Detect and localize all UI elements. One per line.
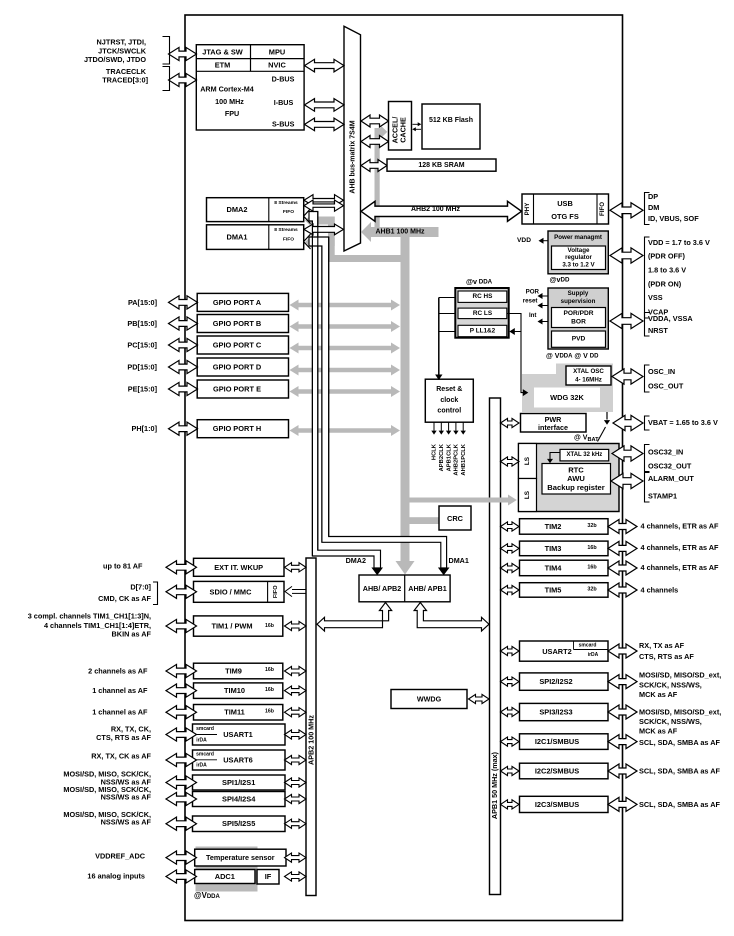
svg-text:PD[15:0]: PD[15:0]: [127, 363, 157, 372]
gray DMA2 stub: [311, 217, 335, 225]
svg-text:SCL, SDA, SMBA as AF: SCL, SDA, SMBA as AF: [639, 800, 720, 809]
Supply supervision block: [548, 288, 608, 349]
svg-text:ETM: ETM: [215, 61, 231, 70]
gray AHB1 trunk arrowhead into bridge: [396, 561, 415, 575]
gray accelerator arrowhead: [375, 125, 388, 138]
APB2 bus bar: [306, 558, 316, 896]
CPU S-BUS to matrix arrow: [305, 118, 345, 131]
RC LS to PLL wire: [507, 314, 521, 332]
svg-text:smcard: smcard: [196, 726, 214, 732]
gray AHB1 vertical trunk: [401, 231, 410, 561]
svg-text:16b: 16b: [265, 708, 274, 714]
VDD pins arrow: [610, 248, 643, 263]
svg-text:STAMP1: STAMP1: [648, 492, 677, 501]
svg-text:Supply: Supply: [568, 290, 589, 297]
APB2 connector arrow: [285, 730, 307, 739]
svg-text:128 KB SRAM: 128 KB SRAM: [418, 162, 464, 169]
TIM pins arrow: [608, 520, 637, 534]
DMA1 to matrix arrow: [304, 224, 344, 235]
SPI5/I2S5 block: [193, 816, 286, 832]
TIM11 block: [194, 705, 283, 721]
svg-text:TIM4: TIM4: [545, 563, 563, 572]
peripheral AF pins arrow: [608, 675, 637, 689]
svg-text:8 Streams: 8 Streams: [274, 227, 298, 233]
512 KB Flash block: [422, 104, 480, 149]
svg-text:PH[1:0]: PH[1:0]: [131, 424, 157, 433]
svg-text:irDA: irDA: [196, 737, 207, 743]
peripheral pins arrow: [166, 870, 197, 883]
CRC block: [439, 506, 471, 530]
svg-text:USB: USB: [557, 199, 573, 208]
DMA channel vertical wires: [311, 221, 313, 556]
svg-text:D-BUS: D-BUS: [272, 74, 295, 83]
svg-text:SPI3/I2S3: SPI3/I2S3: [539, 708, 572, 717]
peripheral AF pins arrow: [608, 644, 637, 658]
WWDG block: [391, 690, 467, 709]
APB2 connector arrow: [285, 853, 307, 862]
USB bracket: [645, 193, 650, 225]
svg-text:LS: LS: [524, 456, 531, 465]
peripheral AF pins arrow: [608, 764, 637, 778]
svg-text:DMA2: DMA2: [346, 556, 366, 565]
USB OTG FS block: [522, 194, 609, 224]
svg-text:Power managmt: Power managmt: [554, 234, 602, 241]
svg-text:DM: DM: [648, 203, 659, 212]
VDDA NRST pins arrow: [610, 313, 643, 328]
GPIO PORT H block: [197, 420, 288, 438]
RC oscillator group block: [455, 288, 508, 338]
APB1 connector arrow: [501, 522, 520, 531]
svg-text:Voltage: Voltage: [568, 247, 590, 254]
peripheral pins arrow: [166, 792, 197, 805]
svg-text:Reset &: Reset &: [436, 386, 462, 393]
gray link to trunk: [328, 255, 401, 262]
svg-text:APB1CLK: APB1CLK: [446, 443, 452, 471]
svg-text:VDDREF_ADC: VDDREF_ADC: [95, 851, 146, 860]
svg-text:OSC32_IN: OSC32_IN: [648, 448, 683, 457]
TIM pins arrow: [608, 561, 637, 575]
svg-text:AHB bus-matrix 7S4M: AHB bus-matrix 7S4M: [349, 120, 356, 193]
svg-text:USART2: USART2: [542, 647, 572, 656]
svg-text:MOSI/SD, MISO/SD_ext,: MOSI/SD, MISO/SD_ext,: [639, 708, 721, 717]
128 KB SRAM block: [387, 159, 496, 171]
svg-text:1.8 to 3.6 V: 1.8 to 3.6 V: [648, 266, 686, 275]
SDIO bracket: [153, 582, 158, 605]
svg-text:GPIO PORT C: GPIO PORT C: [213, 341, 262, 350]
APB2 connector arrow: [285, 819, 307, 828]
svg-text:PHY: PHY: [524, 202, 531, 216]
svg-text:JTDO/SWD, JTDO: JTDO/SWD, JTDO: [84, 55, 146, 64]
svg-text:TIM10: TIM10: [224, 686, 245, 695]
matrix to SRAM arrow: [361, 160, 387, 172]
svg-text:RX, TX as AF: RX, TX as AF: [639, 641, 685, 650]
svg-text:AHB2PCLK: AHB2PCLK: [454, 443, 460, 475]
svg-text:supervision: supervision: [561, 298, 596, 305]
svg-text:SCL, SDA, SMBA as AF: SCL, SDA, SMBA as AF: [639, 767, 720, 776]
I2C3/SMBUS block: [520, 796, 609, 812]
svg-text:FPU: FPU: [225, 109, 239, 118]
VDD bracket: [645, 237, 650, 318]
svg-text:JTAG & SW: JTAG & SW: [202, 47, 243, 56]
svg-text:PA[15:0]: PA[15:0]: [128, 298, 158, 307]
svg-text:AHB2 100 MHz: AHB2 100 MHz: [411, 206, 461, 213]
SPI3/I2S3 block: [520, 703, 609, 720]
svg-text:16b: 16b: [587, 545, 597, 551]
bridge to APB1 connector arrow: [414, 603, 489, 632]
gray GPIO port D bus arrow: [290, 365, 401, 376]
svg-text:32b: 32b: [587, 586, 597, 592]
peripheral pins arrow: [166, 817, 197, 830]
svg-text:16b: 16b: [587, 564, 597, 570]
svg-text:DP: DP: [648, 192, 658, 201]
svg-text:16b: 16b: [265, 687, 274, 693]
DMA2 APB2 channel: [309, 212, 381, 569]
APB1 connector arrow: [501, 646, 520, 655]
svg-text:DMA1: DMA1: [449, 556, 469, 565]
AHB2 100 MHz arrow: [361, 201, 522, 221]
svg-text:ALARM_OUT: ALARM_OUT: [648, 474, 694, 483]
svg-text:@ VBAT: @ VBAT: [574, 435, 599, 444]
APB1 connector arrow: [501, 418, 520, 427]
ACCEL/CACHE block: [389, 102, 412, 151]
SPI4/I2S4 block: [193, 792, 286, 807]
svg-text:PC[15:0]: PC[15:0]: [127, 341, 157, 350]
peripheral pins arrow: [166, 776, 197, 789]
CPU NVIC to matrix arrow: [305, 59, 345, 72]
XTAL32 to RTC wire: [550, 453, 560, 460]
APB2 connector arrow: [285, 794, 307, 803]
gray CRC stub: [410, 517, 440, 524]
JTAG bracket: [163, 37, 170, 65]
DMA2 block: [207, 198, 304, 222]
LS cell 1: [519, 444, 537, 479]
APB1 connector arrow: [501, 457, 520, 466]
OSC32 pins arrow: [612, 446, 643, 461]
APB2 connector arrow: [285, 686, 307, 695]
svg-text:CTS, RTS as AF: CTS, RTS as AF: [639, 652, 694, 661]
peripheral pins arrow: [166, 706, 197, 719]
WWDG connector arrow: [469, 694, 490, 703]
TIM9 block: [194, 663, 283, 679]
svg-text:GPIO PORT D: GPIO PORT D: [213, 363, 262, 372]
gray DMA vertical link: [328, 217, 335, 263]
APB2 connector arrow: [285, 778, 307, 787]
svg-text:16 analog inputs: 16 analog inputs: [87, 871, 145, 880]
svg-text:4 channels, ETR as AF: 4 channels, ETR as AF: [641, 563, 720, 572]
svg-text:RC LS: RC LS: [473, 310, 493, 317]
svg-text:VDD = 1.7 to 3.6 V: VDD = 1.7 to 3.6 V: [648, 238, 710, 247]
OSC bracket: [645, 365, 650, 392]
svg-text:SCL, SDA, SMBA as AF: SCL, SDA, SMBA as AF: [639, 738, 720, 747]
svg-text:ADC1: ADC1: [215, 872, 235, 881]
svg-text:SPI4/I2S4: SPI4/I2S4: [222, 795, 256, 804]
svg-text:TIM11: TIM11: [224, 708, 245, 717]
svg-text:NSS/WS as AF: NSS/WS as AF: [101, 792, 152, 801]
svg-text:@ VDDA @ V DD: @ VDDA @ V DD: [546, 353, 599, 360]
svg-text:I2C3/SMBUS: I2C3/SMBUS: [535, 800, 579, 809]
peripheral AF pins arrow: [608, 797, 637, 811]
USART1 block: [193, 724, 286, 745]
svg-text:(PDR ON): (PDR ON): [648, 279, 682, 288]
OSC32 bracket: [645, 445, 650, 472]
svg-text:DMA1: DMA1: [227, 233, 248, 242]
APB2 connector arrow: [285, 708, 307, 717]
svg-text:PE[15:0]: PE[15:0]: [128, 385, 158, 394]
svg-text:I2C1/SMBUS: I2C1/SMBUS: [535, 737, 579, 746]
svg-text:MCK as AF: MCK as AF: [639, 726, 678, 735]
VDDA bracket: [645, 313, 650, 337]
svg-text:USART6: USART6: [223, 756, 253, 765]
gray WDG region: [522, 374, 613, 412]
Temperature sensor block: [195, 849, 286, 866]
svg-text:16b: 16b: [265, 623, 274, 629]
PWR interface block: [521, 414, 587, 433]
AHB/APB bridge block: [359, 575, 450, 602]
svg-text:SPI2/I2S2: SPI2/I2S2: [539, 677, 572, 686]
svg-text:BOR: BOR: [571, 319, 586, 326]
svg-text:control: control: [437, 408, 461, 415]
svg-text:TIM5: TIM5: [545, 585, 562, 594]
peripheral pins arrow: [166, 619, 197, 632]
GPIO pins arrow: [169, 360, 198, 373]
gray GPIO port E bus arrow: [290, 386, 401, 397]
GPIO PORT E block: [197, 380, 288, 398]
peripheral pins arrow: [166, 728, 197, 741]
peripheral pins arrow: [166, 684, 197, 697]
svg-text:POR: POR: [526, 288, 540, 295]
WDG 32K box: [534, 388, 600, 408]
gray GPIO port A bus arrow: [290, 300, 401, 311]
svg-text:MOSI/SD, MISO/SD_ext,: MOSI/SD, MISO/SD_ext,: [639, 671, 721, 680]
TRACE signals arrow: [169, 73, 197, 86]
svg-text:ID, VBUS, SOF: ID, VBUS, SOF: [648, 214, 699, 223]
svg-text:FIFO: FIFO: [283, 236, 294, 242]
svg-text:clock: clock: [440, 397, 458, 404]
APB1 connector arrow: [501, 707, 520, 716]
svg-text:smcard: smcard: [196, 751, 214, 757]
XTAL OSC block: [566, 366, 611, 385]
svg-text:regulator: regulator: [565, 254, 592, 261]
Voltage regulator box: [552, 246, 606, 270]
GPIO PORT C block: [197, 336, 288, 354]
svg-text:VDDA, VSSA: VDDA, VSSA: [648, 314, 693, 323]
svg-text:4 channels: 4 channels: [641, 586, 679, 595]
svg-text:1 channel as AF: 1 channel as AF: [92, 708, 148, 717]
svg-text:NVIC: NVIC: [268, 61, 286, 70]
TIM5 block: [520, 583, 609, 598]
svg-text:TIM1 / PWM: TIM1 / PWM: [211, 622, 252, 631]
svg-text:D[7:0]: D[7:0]: [130, 582, 151, 591]
svg-text:Int: Int: [529, 312, 537, 319]
svg-text:I-BUS: I-BUS: [274, 98, 294, 107]
TIM pins arrow: [608, 583, 637, 597]
svg-text:irDA: irDA: [588, 652, 599, 658]
APB2 connector arrow: [285, 755, 307, 764]
ALARM STAMP pins arrow: [611, 473, 643, 488]
ADC IF block: [257, 870, 279, 885]
svg-text:100 MHz: 100 MHz: [215, 97, 244, 106]
svg-text:3.3 to 1.2 V: 3.3 to 1.2 V: [562, 261, 595, 268]
gray DMA1 stub: [311, 238, 335, 246]
TIM10 block: [194, 683, 283, 699]
svg-text:TIM9: TIM9: [225, 667, 242, 676]
GPIO PORT B block: [197, 315, 288, 333]
svg-text:S-BUS: S-BUS: [272, 119, 295, 128]
svg-text:GPIO PORT E: GPIO PORT E: [213, 385, 261, 394]
PVD box: [552, 331, 606, 347]
CPU I-BUS to matrix arrow: [305, 99, 345, 112]
svg-text:XTAL OSC: XTAL OSC: [573, 368, 604, 375]
svg-text:GPIO PORT B: GPIO PORT B: [213, 319, 261, 328]
svg-text:AHB1 100 MHz: AHB1 100 MHz: [375, 228, 425, 235]
bridge to APB2 connector arrow: [317, 603, 392, 632]
svg-text:AHB1PCLK: AHB1PCLK: [461, 443, 467, 475]
svg-text:PB[15:0]: PB[15:0]: [127, 319, 157, 328]
svg-text:USART1: USART1: [223, 730, 253, 739]
svg-text:APB1 50 MHz (max): APB1 50 MHz (max): [490, 751, 499, 819]
peripheral AF pins arrow: [608, 705, 637, 719]
clock output arrows: [433, 422, 435, 431]
svg-text:NRST: NRST: [648, 326, 668, 335]
GPIO pins arrow: [169, 317, 198, 330]
GPIO pins arrow: [169, 338, 198, 351]
svg-text:@VDDA: @VDDA: [194, 891, 220, 900]
svg-text:BKIN as AF: BKIN as AF: [112, 630, 152, 639]
svg-text:CACHE: CACHE: [399, 117, 408, 143]
APB1 bus bar: [490, 398, 501, 895]
peripheral AF pins arrow: [608, 735, 637, 749]
RTC AWU Backup register block: [542, 464, 611, 495]
svg-text:HCLK: HCLK: [432, 443, 438, 460]
svg-text:PVD: PVD: [572, 336, 586, 343]
peripheral pins arrow: [166, 753, 197, 766]
svg-text:TRACED[3:0]: TRACED[3:0]: [102, 76, 148, 85]
Reset and clock control block: [425, 379, 473, 422]
VBAT switch wire: [606, 412, 608, 420]
DMA2 channel arrowhead into AHB/APB2: [371, 568, 383, 576]
APB2 connector arrow: [285, 563, 307, 572]
svg-text:irDA: irDA: [196, 762, 207, 768]
svg-text:OSC32_OUT: OSC32_OUT: [648, 462, 692, 471]
svg-text:TIM3: TIM3: [545, 544, 562, 553]
gray RTC backup-domain stub: [410, 498, 509, 503]
DMA2 to matrix arrow 1: [304, 195, 344, 206]
peripheral pins arrow: [166, 851, 197, 864]
XTAL 32 kHz block: [560, 449, 609, 461]
svg-text:APB2 100 MHz: APB2 100 MHz: [306, 715, 315, 765]
svg-text:POR/PDR: POR/PDR: [563, 310, 593, 317]
svg-text:interface: interface: [538, 423, 568, 432]
VBAT bracket: [645, 416, 650, 430]
APB1 connector arrow: [501, 585, 520, 594]
svg-text:3 compl. channels TIM1_CH1[1:3: 3 compl. channels TIM1_CH1[1:3]N,: [28, 612, 151, 621]
svg-text:GPIO PORT H: GPIO PORT H: [213, 424, 261, 433]
GPIO pins arrow: [169, 422, 198, 435]
peripheral pins arrow: [166, 585, 197, 598]
svg-text:SCK/CK, NSS/WS,: SCK/CK, NSS/WS,: [639, 680, 702, 689]
TIM3 block: [520, 541, 609, 556]
gray accelerator branch: [375, 128, 380, 228]
svg-text:FIFO: FIFO: [273, 585, 279, 598]
ARM Cortex-M4 block: [196, 45, 304, 130]
OSC pins arrow: [612, 369, 643, 384]
svg-text:RX, TX, CK as AF: RX, TX, CK as AF: [91, 751, 151, 760]
APB1 connector arrow: [501, 544, 520, 553]
svg-text:VSS: VSS: [648, 293, 663, 302]
svg-text:Temperature sensor: Temperature sensor: [206, 853, 275, 862]
svg-text:I2C2/SMBUS: I2C2/SMBUS: [535, 767, 579, 776]
svg-text:NSS/WS as AF: NSS/WS as AF: [101, 817, 152, 826]
svg-text:P LL1&2: P LL1&2: [470, 328, 496, 335]
svg-text:Backup register: Backup register: [547, 483, 604, 492]
TIM1/PWM block: [194, 616, 283, 636]
JTAG signals arrow: [169, 47, 197, 60]
svg-text:FIFO: FIFO: [599, 202, 606, 216]
svg-text:(PDR OFF): (PDR OFF): [648, 252, 685, 261]
svg-text:smcard: smcard: [579, 642, 597, 648]
DMA1 channel arrowhead into AHB/APB1: [438, 568, 450, 576]
svg-text:RC HS: RC HS: [473, 293, 494, 300]
svg-text:VDD: VDD: [517, 237, 531, 244]
SPI1/I2S1 block: [193, 775, 286, 790]
svg-text:AHB/ APB2: AHB/ APB2: [363, 584, 401, 593]
APB1 connector arrow: [501, 800, 520, 809]
LSI wire into WDG: [521, 332, 524, 393]
svg-text:GPIO PORT A: GPIO PORT A: [213, 298, 262, 307]
GPIO pins arrow: [169, 382, 198, 395]
TRACE bracket: [163, 67, 170, 91]
gray GPIO port B bus arrow: [290, 321, 401, 332]
svg-text:DMA2: DMA2: [227, 205, 248, 214]
svg-text:TIM2: TIM2: [545, 522, 562, 531]
svg-text:LS: LS: [524, 490, 531, 499]
APB1 connector arrow: [501, 737, 520, 746]
svg-text:APB2CLK: APB2CLK: [439, 443, 445, 471]
svg-text:OTG FS: OTG FS: [551, 212, 579, 221]
svg-text:XTAL 32 kHz: XTAL 32 kHz: [567, 452, 603, 458]
I2C2/SMBUS block: [520, 763, 609, 779]
svg-text:MPU: MPU: [269, 47, 285, 56]
svg-text:512 KB Flash: 512 KB Flash: [429, 117, 473, 124]
flash interface small arrows: [413, 123, 420, 125]
RC HS box: [458, 291, 507, 302]
gray ADC background: [196, 847, 258, 892]
gray AHB1 100 MHz band arrow: [361, 222, 439, 242]
svg-text:MCK as AF: MCK as AF: [639, 690, 678, 699]
gray GPIO port C bus arrow: [290, 343, 401, 354]
svg-text:IF: IF: [265, 872, 272, 881]
LS cell 2: [519, 479, 537, 512]
DMA1 APB1 channel: [309, 237, 447, 568]
svg-text:SCK/CK, NSS/WS,: SCK/CK, NSS/WS,: [639, 717, 702, 726]
Power managmt block: [548, 231, 608, 274]
AHB bus matrix: [344, 26, 361, 251]
svg-text:up to 81 AF: up to 81 AF: [103, 561, 143, 570]
POR/PDR BOR box: [552, 308, 606, 328]
APB1 connector arrow: [501, 677, 520, 686]
RTC backup domain block: [519, 444, 620, 512]
svg-text:CRC: CRC: [447, 514, 464, 523]
svg-text:@vDD: @vDD: [550, 275, 570, 284]
APB2 connector arrow: [285, 872, 307, 881]
svg-text:SPI1/I2S1: SPI1/I2S1: [222, 778, 255, 787]
svg-text:WDG 32K: WDG 32K: [550, 393, 584, 402]
APB1 connector arrow: [501, 563, 520, 572]
APB2 connector arrow: [285, 666, 307, 675]
peripheral pins arrow: [166, 664, 197, 677]
USART2 block: [520, 641, 609, 661]
svg-text:ARM Cortex-M4: ARM Cortex-M4: [200, 85, 254, 94]
